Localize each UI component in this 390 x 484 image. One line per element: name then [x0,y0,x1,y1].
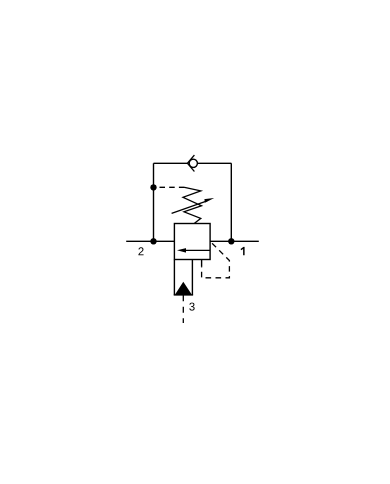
node A junction dot [150,184,156,190]
label port 2 [138,247,143,255]
node port 2 junction dot [150,238,156,244]
flow path arrow head [177,248,186,253]
adjustment arrow head [204,198,214,203]
wire main line left (port 2 side) [126,240,174,242]
label port 3 [189,303,194,311]
wire left vertical [153,163,155,241]
wire right vertical [230,163,232,241]
pilot drain dashed loop [202,241,230,277]
drain seat triangle [175,282,192,295]
lower column bottom edge [174,294,193,296]
lower column right edge [191,260,193,295]
wire top loop right horizontal [198,162,232,164]
valve body box V1 [174,224,210,260]
node port 1 junction dot [228,238,234,244]
flow path arrow shaft inside box [185,249,211,251]
check valve CV1 seat [187,155,194,171]
wire main line right (port 1 side) [210,240,259,242]
adjustment arrow shaft [172,201,208,214]
check valve CV1 ball [189,159,197,167]
wire top loop left horizontal [154,162,188,164]
lower column left edge [173,260,175,295]
spring (adjustable) [183,187,202,223]
drain stub solid [201,260,203,267]
drain line dashed to port 3 [182,295,184,323]
pilot line dashed from node A to spring [160,186,185,188]
label port 1 [241,247,245,255]
